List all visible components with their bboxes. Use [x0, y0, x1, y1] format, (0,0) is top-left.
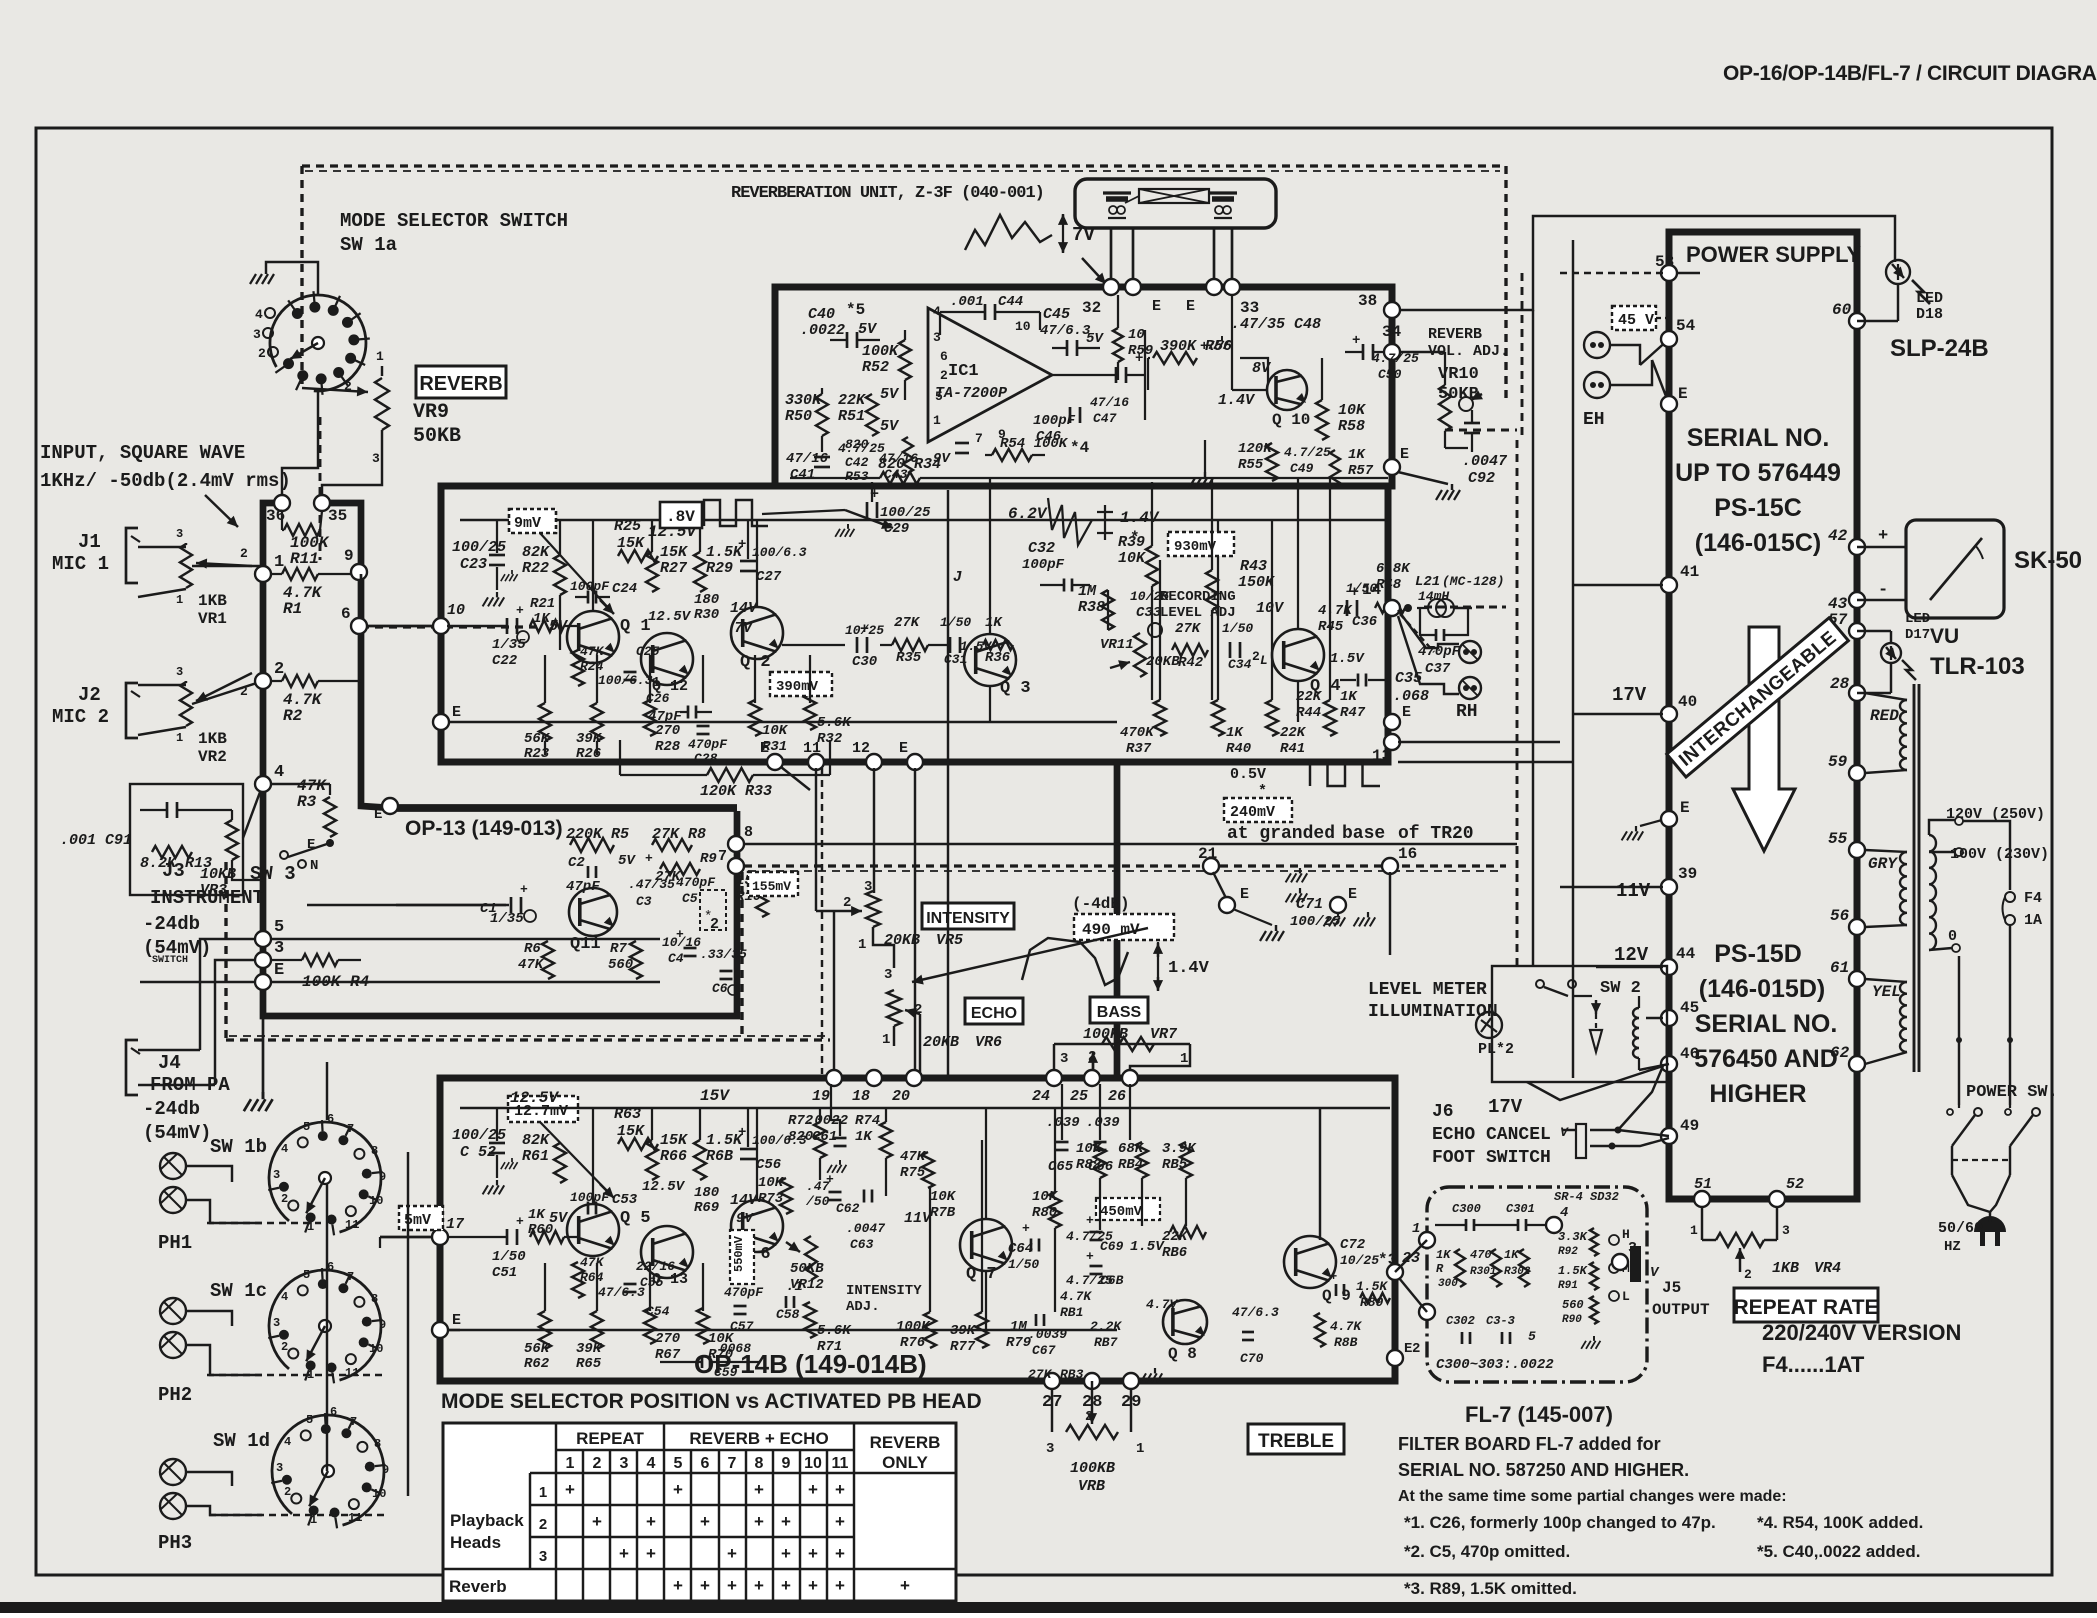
svg-text:1KHz/ -50db(2.4mV rms): 1KHz/ -50db(2.4mV rms) [40, 470, 291, 492]
svg-text:R30: R30 [694, 607, 719, 623]
svg-text:11V: 11V [1616, 880, 1651, 902]
svg-text:VR12: VR12 [790, 1277, 824, 1293]
svg-text:50KB: 50KB [413, 425, 461, 448]
svg-text:47K: 47K [580, 644, 605, 659]
svg-text:C2: C2 [568, 855, 585, 871]
svg-text:REVERB + ECHO: REVERB + ECHO [689, 1429, 828, 1448]
svg-text:12V: 12V [1614, 944, 1649, 966]
svg-text:100pF: 100pF [1022, 557, 1065, 573]
svg-text:RECORDING: RECORDING [1160, 589, 1236, 605]
svg-text:RH: RH [1456, 702, 1478, 722]
svg-text:.0068: .0068 [712, 1341, 751, 1356]
svg-text:5V: 5V [1086, 331, 1104, 347]
svg-text:+: + [646, 1544, 656, 1563]
svg-text:E: E [374, 807, 382, 823]
svg-text:E: E [899, 740, 908, 757]
svg-text:C31: C31 [944, 652, 967, 667]
svg-text:9: 9 [344, 547, 354, 565]
svg-text:576450 AND: 576450 AND [1694, 1045, 1838, 1073]
svg-text:7V: 7V [1072, 224, 1095, 246]
svg-text:+: + [727, 1544, 737, 1563]
svg-text:TREBLE: TREBLE [1258, 1431, 1334, 1452]
svg-text:E: E [274, 961, 284, 980]
svg-text:5: 5 [303, 1268, 310, 1282]
svg-text:20KB: 20KB [884, 932, 920, 949]
svg-text:1.5V: 1.5V [1330, 651, 1365, 667]
svg-text:1/50: 1/50 [492, 1249, 526, 1265]
svg-text:820: 820 [845, 437, 869, 452]
svg-text:47/6.3: 47/6.3 [1232, 1305, 1279, 1320]
svg-text:+: + [645, 851, 653, 866]
svg-text:1: 1 [274, 553, 284, 572]
svg-text:+: + [738, 1125, 746, 1141]
svg-text:ONLY: ONLY [882, 1453, 928, 1472]
svg-text:5: 5 [306, 1413, 313, 1427]
svg-text:SW 3: SW 3 [250, 863, 296, 885]
svg-text:18: 18 [852, 1088, 870, 1105]
svg-text:2: 2 [281, 1192, 288, 1206]
svg-text:1: 1 [566, 1455, 575, 1472]
svg-text:C46: C46 [1036, 429, 1062, 445]
svg-text:VR1: VR1 [198, 610, 227, 628]
svg-text:Playback: Playback [450, 1511, 524, 1530]
svg-text:3: 3 [539, 1548, 547, 1565]
svg-text:4.7V: 4.7V [1146, 1297, 1178, 1312]
svg-text:20KB: 20KB [923, 1034, 959, 1051]
svg-text:+: + [673, 1480, 683, 1499]
svg-text:IC1: IC1 [948, 362, 979, 381]
svg-text:RB7: RB7 [1094, 1335, 1118, 1350]
svg-text:2: 2 [274, 660, 284, 679]
svg-text:32: 32 [1082, 299, 1101, 317]
svg-text:J1: J1 [78, 531, 101, 553]
svg-text:+: + [754, 1512, 764, 1531]
svg-text:1.4V: 1.4V [1218, 392, 1256, 409]
svg-text:VR4: VR4 [1814, 1260, 1841, 1277]
svg-text:100pF: 100pF [570, 1190, 610, 1205]
svg-text:R40: R40 [1226, 741, 1251, 757]
svg-text:C34: C34 [1228, 657, 1252, 672]
svg-text:5V: 5V [880, 386, 900, 403]
svg-text:1.4V: 1.4V [1168, 959, 1210, 978]
svg-text:550mV: 550mV [732, 1235, 746, 1272]
svg-text:INTENSITY: INTENSITY [926, 910, 1010, 927]
svg-text:470K: 470K [1120, 725, 1155, 741]
svg-text:R42: R42 [1178, 655, 1204, 671]
svg-text:R6: R6 [524, 941, 541, 957]
svg-text:PS-15C: PS-15C [1714, 494, 1802, 522]
svg-text:Reverb: Reverb [449, 1577, 507, 1596]
svg-text:28: 28 [1830, 675, 1850, 693]
svg-text:C47: C47 [1093, 411, 1117, 426]
svg-text:22K: 22K [1280, 725, 1307, 741]
svg-text:+: + [835, 1576, 845, 1595]
svg-text:56: 56 [1830, 907, 1850, 925]
svg-text:VR9: VR9 [413, 401, 449, 424]
svg-text:0.5V: 0.5V [1230, 766, 1266, 783]
svg-text:+: + [700, 1576, 710, 1595]
svg-text:ECHO CANCEL: ECHO CANCEL [1432, 1125, 1551, 1145]
svg-text:3: 3 [253, 327, 261, 342]
svg-text:14V: 14V [730, 600, 759, 617]
svg-text:60: 60 [1832, 301, 1852, 319]
svg-text:.47/35 C48: .47/35 C48 [1231, 316, 1321, 333]
svg-text:2: 2 [1744, 1267, 1752, 1282]
svg-text:VR5: VR5 [936, 932, 963, 949]
svg-text:.0047: .0047 [1462, 453, 1508, 470]
svg-text:+: + [835, 1480, 845, 1499]
svg-text:RED: RED [1870, 707, 1899, 725]
svg-text:10: 10 [369, 1342, 383, 1356]
svg-text:27K: 27K [1175, 621, 1202, 637]
svg-text:LEVEL METER: LEVEL METER [1368, 980, 1487, 1000]
svg-text:10: 10 [1015, 319, 1031, 334]
svg-text:E: E [1240, 886, 1249, 903]
svg-text:R21: R21 [530, 596, 555, 612]
svg-text:47/6.3: 47/6.3 [598, 1285, 645, 1300]
svg-text:R51: R51 [838, 408, 865, 425]
svg-text:3: 3 [276, 1461, 283, 1475]
svg-text:10: 10 [1128, 327, 1145, 343]
svg-text:1/35: 1/35 [492, 637, 526, 653]
svg-text:RB6: RB6 [1162, 1245, 1188, 1261]
svg-text:+: + [835, 1544, 845, 1563]
svg-text:+: + [673, 1576, 683, 1595]
svg-text:27K: 27K [1028, 1367, 1053, 1382]
svg-text:1: 1 [1136, 1441, 1144, 1457]
svg-text:3: 3 [372, 451, 380, 466]
svg-text:FOOT SWITCH: FOOT SWITCH [1432, 1148, 1551, 1168]
svg-text:4: 4 [281, 1290, 288, 1304]
svg-text:220K R5: 220K R5 [566, 826, 629, 843]
svg-text:C29: C29 [884, 521, 909, 537]
svg-text:1: 1 [376, 349, 384, 364]
svg-text:LED: LED [1916, 290, 1943, 307]
svg-text:E: E [452, 704, 461, 721]
svg-text:10/25: 10/25 [1340, 1253, 1379, 1268]
svg-text:C42: C42 [845, 455, 869, 470]
svg-text:+: + [1022, 1221, 1030, 1236]
svg-text:E: E [1678, 385, 1688, 403]
svg-text:1K: 1K [528, 1207, 546, 1223]
svg-text:2: 2 [539, 1516, 547, 1533]
svg-text:10: 10 [447, 602, 465, 619]
svg-text:R37: R37 [1126, 741, 1152, 757]
svg-text:50/60: 50/60 [1938, 1220, 1983, 1237]
svg-text:470pF: 470pF [676, 875, 716, 890]
svg-text:40: 40 [1678, 693, 1697, 711]
svg-text:17V: 17V [1612, 684, 1647, 706]
svg-text:Q 10: Q 10 [1272, 411, 1310, 429]
svg-text:MODE SELECTOR SWITCH: MODE SELECTOR SWITCH [340, 210, 568, 232]
svg-text:27K: 27K [894, 615, 921, 631]
svg-text:REVERBERATION UNIT, Z-3F (040-: REVERBERATION UNIT, Z-3F (040-001) [731, 184, 1044, 203]
svg-text:1M: 1M [1010, 1319, 1027, 1335]
svg-text:3: 3 [864, 879, 872, 895]
svg-text:7: 7 [350, 1415, 357, 1429]
svg-text:of TR20: of TR20 [1398, 824, 1474, 844]
svg-text:R60: R60 [528, 1222, 553, 1238]
svg-text:56K: 56K [524, 731, 551, 747]
svg-text:E: E [1400, 446, 1409, 463]
svg-text:J4: J4 [158, 1052, 181, 1074]
svg-text:L: L [1622, 1289, 1630, 1304]
svg-text:R92: R92 [1558, 1246, 1578, 1258]
svg-text:E: E [1152, 298, 1161, 315]
svg-text:100/25: 100/25 [1290, 914, 1341, 930]
svg-text:C33: C33 [1136, 605, 1162, 621]
svg-text:HZ: HZ [1944, 1239, 1961, 1255]
svg-text:6.8K: 6.8K [1376, 561, 1411, 577]
svg-text:PS-15D: PS-15D [1714, 940, 1802, 968]
svg-text:C65: C65 [1048, 1159, 1074, 1175]
svg-text:R27: R27 [660, 560, 688, 577]
svg-text:C50: C50 [1378, 367, 1402, 382]
svg-text:R3: R3 [297, 793, 317, 811]
svg-text:Heads: Heads [450, 1533, 501, 1552]
svg-text:MODE SELECTOR POSITION vs ACTI: MODE SELECTOR POSITION vs ACTIVATED PB H… [441, 1390, 982, 1413]
svg-text:R11: R11 [290, 550, 319, 568]
svg-text:*2. C5, 470p omitted.: *2. C5, 470p omitted. [1404, 1542, 1570, 1561]
svg-text:10K: 10K [1118, 550, 1147, 567]
svg-text:2: 2 [843, 895, 851, 911]
svg-text:100/25: 100/25 [452, 1127, 506, 1144]
svg-text:R39: R39 [1118, 534, 1145, 551]
svg-text:C301: C301 [1506, 1202, 1535, 1216]
svg-text:820: 820 [788, 1129, 813, 1145]
svg-text:25: 25 [1070, 1088, 1088, 1105]
svg-text:SERIAL NO.: SERIAL NO. [1695, 1010, 1838, 1038]
svg-text:D18: D18 [1916, 306, 1943, 323]
svg-text:16: 16 [1398, 845, 1417, 863]
svg-text:RB1: RB1 [1060, 1305, 1083, 1320]
svg-text:15V: 15V [700, 1087, 730, 1105]
svg-text:SLP-24B: SLP-24B [1890, 335, 1989, 362]
svg-text:47K: 47K [580, 1255, 605, 1270]
svg-text:-: - [1878, 581, 1888, 600]
svg-text:SW 1c: SW 1c [210, 1280, 267, 1302]
svg-text:7: 7 [728, 1455, 737, 1472]
svg-text:10: 10 [369, 1194, 383, 1208]
svg-text:C59: C59 [714, 1365, 738, 1380]
svg-text:47K: 47K [900, 1149, 927, 1165]
svg-text:1.4V: 1.4V [1120, 509, 1160, 527]
svg-text:50KB: 50KB [790, 1261, 824, 1277]
svg-text:E: E [1680, 799, 1690, 817]
svg-text:(54mV): (54mV) [143, 1122, 211, 1144]
svg-text:+: + [520, 882, 528, 897]
svg-text:J2: J2 [78, 684, 101, 706]
svg-text:19: 19 [812, 1088, 830, 1105]
svg-text:450mV: 450mV [1100, 1204, 1143, 1220]
svg-text:.068: .068 [1393, 688, 1429, 705]
svg-text:2: 2 [1252, 649, 1260, 664]
svg-text:1K: 1K [985, 615, 1003, 631]
svg-text:180: 180 [694, 1185, 719, 1201]
svg-text:55: 55 [1828, 830, 1848, 848]
svg-text:1/50: 1/50 [940, 615, 971, 630]
svg-text:+: + [676, 927, 684, 942]
svg-text:6: 6 [701, 1455, 710, 1472]
svg-text:*5: *5 [846, 301, 865, 319]
svg-text:42: 42 [1828, 527, 1848, 545]
svg-text:44: 44 [1676, 945, 1696, 963]
svg-text:3.9K: 3.9K [1162, 1141, 1197, 1157]
svg-text:.0047: .0047 [846, 1221, 885, 1236]
svg-text:E: E [1402, 704, 1411, 721]
svg-text:9: 9 [782, 1455, 791, 1472]
svg-text:62: 62 [1830, 1044, 1850, 1062]
svg-text:SERIAL NO. 587250 AND HIGHER.: SERIAL NO. 587250 AND HIGHER. [1398, 1460, 1689, 1480]
svg-text:SWITCH: SWITCH [152, 955, 188, 966]
svg-text:7: 7 [347, 1270, 354, 1284]
svg-text:C45: C45 [1043, 306, 1070, 323]
svg-text:SW 1a: SW 1a [340, 234, 397, 256]
svg-text:R74: R74 [855, 1113, 880, 1129]
svg-text:VR3: VR3 [200, 882, 227, 899]
svg-text:R7B: R7B [930, 1205, 956, 1221]
svg-text:270: 270 [655, 1331, 680, 1347]
svg-text:REVERB: REVERB [419, 373, 502, 395]
svg-text:.001: .001 [950, 294, 984, 310]
svg-text:.001 C91: .001 C91 [60, 832, 132, 849]
svg-text:at granded: at granded [1227, 824, 1335, 844]
svg-text:R38: R38 [1078, 599, 1105, 616]
svg-text:56K: 56K [524, 1341, 551, 1357]
svg-text:54: 54 [1676, 317, 1696, 335]
svg-text:4.7/25: 4.7/25 [1372, 351, 1419, 366]
svg-text:2: 2 [281, 1340, 288, 1354]
svg-text:L21: L21 [1415, 574, 1440, 590]
svg-text:(146-015D): (146-015D) [1699, 975, 1825, 1003]
svg-text:Q 8: Q 8 [1168, 1345, 1197, 1363]
svg-text:+: + [592, 1512, 602, 1531]
svg-text:470: 470 [1470, 1248, 1492, 1262]
svg-text:.0022: .0022 [800, 322, 845, 339]
svg-text:470pF: 470pF [724, 1285, 764, 1300]
svg-text:12.5V: 12.5V [648, 609, 692, 625]
svg-text:52: 52 [1786, 1176, 1804, 1193]
svg-text:9: 9 [379, 1170, 386, 1184]
svg-text:220/240V VERSION: 220/240V VERSION [1762, 1320, 1961, 1345]
svg-text:+: + [619, 1544, 629, 1563]
svg-text:560: 560 [608, 957, 633, 973]
svg-text:560: 560 [1562, 1298, 1584, 1312]
svg-text:R65: R65 [576, 1356, 602, 1372]
svg-text:8: 8 [374, 1437, 381, 1451]
svg-text:PH1: PH1 [158, 1232, 192, 1254]
svg-text:3: 3 [273, 1316, 280, 1330]
svg-text:REVERB: REVERB [870, 1433, 941, 1452]
svg-text:R41: R41 [1280, 741, 1305, 757]
svg-text:R53: R53 [845, 469, 869, 484]
svg-text:4.7K: 4.7K [1060, 1289, 1092, 1304]
svg-text:R28: R28 [655, 739, 681, 755]
svg-text:820 R34: 820 R34 [878, 456, 941, 473]
svg-text:+: + [900, 1576, 910, 1595]
svg-text:2: 2 [240, 546, 248, 561]
svg-text:R24: R24 [580, 659, 604, 674]
svg-text:2: 2 [1412, 1341, 1420, 1357]
svg-text:4: 4 [255, 307, 263, 322]
svg-text:R69: R69 [694, 1200, 719, 1216]
svg-text:*3. R89, 1.5K omitted.: *3. R89, 1.5K omitted. [1404, 1579, 1577, 1598]
svg-text:47/6.3: 47/6.3 [1040, 323, 1091, 339]
svg-text:390mV: 390mV [776, 679, 819, 695]
svg-text:12: 12 [852, 740, 870, 757]
svg-text:R22: R22 [522, 560, 549, 577]
svg-text:POWER SUPPLY: POWER SUPPLY [1686, 242, 1862, 267]
svg-text:R7: R7 [610, 941, 627, 957]
svg-text:8: 8 [371, 1144, 378, 1158]
svg-text:51: 51 [1694, 1176, 1712, 1193]
svg-text:+: + [754, 1576, 764, 1595]
svg-text:+: + [826, 1172, 834, 1187]
svg-text:F4......1AT: F4......1AT [1762, 1352, 1865, 1377]
svg-text:35: 35 [328, 507, 347, 525]
svg-text:SW 2: SW 2 [1600, 979, 1641, 998]
svg-text:100V (230V): 100V (230V) [1950, 846, 2049, 863]
svg-text:330K: 330K [785, 392, 823, 409]
svg-text:F4: F4 [2024, 890, 2042, 907]
svg-text:+: + [808, 1544, 818, 1563]
svg-text:-24db: -24db [143, 1098, 200, 1120]
svg-text:12.5V: 12.5V [510, 1089, 559, 1107]
svg-text:1: 1 [1690, 1223, 1698, 1238]
svg-text:OP-16/OP-14B/FL-7 / CIRCUIT DI: OP-16/OP-14B/FL-7 / CIRCUIT DIAGRAM [1723, 62, 2097, 85]
svg-text:26: 26 [1108, 1088, 1126, 1105]
svg-text:R47: R47 [1340, 705, 1366, 721]
svg-text:5V: 5V [858, 321, 878, 338]
svg-text:R25: R25 [614, 518, 641, 535]
svg-text:49: 49 [1680, 1117, 1699, 1135]
svg-text:240mV: 240mV [1230, 804, 1275, 821]
svg-text:5: 5 [303, 1120, 310, 1134]
svg-text:1K: 1K [1504, 1248, 1520, 1262]
svg-text:120K R33: 120K R33 [700, 783, 772, 800]
svg-text:POWER SW.: POWER SW. [1966, 1083, 2058, 1102]
svg-text:R61: R61 [522, 1148, 549, 1165]
svg-text:2: 2 [710, 916, 719, 933]
svg-text:L: L [1260, 653, 1268, 668]
svg-text:5: 5 [274, 918, 284, 937]
svg-text:2: 2 [940, 368, 948, 383]
svg-text:1K: 1K [533, 611, 551, 627]
svg-text:3: 3 [1046, 1441, 1054, 1457]
svg-text:C41: C41 [790, 467, 815, 483]
svg-text:59: 59 [1828, 753, 1848, 771]
svg-text:R29: R29 [706, 560, 733, 577]
svg-text:45: 45 [1680, 999, 1699, 1017]
svg-text:RB3: RB3 [1060, 1367, 1084, 1382]
svg-text:+: + [1086, 1249, 1094, 1264]
svg-text:R35: R35 [896, 650, 922, 666]
svg-text:E: E [452, 1312, 461, 1329]
svg-text:N: N [310, 858, 318, 874]
svg-text:4: 4 [647, 1455, 656, 1472]
svg-text:5V: 5V [880, 418, 900, 435]
svg-text:C24: C24 [612, 581, 637, 597]
svg-text:61: 61 [1830, 959, 1849, 977]
svg-text:R64: R64 [580, 1270, 604, 1285]
svg-text:C32: C32 [1028, 540, 1055, 557]
svg-text:C 52: C 52 [460, 1144, 496, 1161]
svg-text:2: 2 [1085, 1409, 1093, 1425]
svg-text:+: + [727, 1576, 737, 1595]
svg-text:1A: 1A [2024, 912, 2042, 929]
svg-text:10V: 10V [1256, 600, 1285, 617]
svg-text:R91: R91 [1558, 1280, 1578, 1292]
